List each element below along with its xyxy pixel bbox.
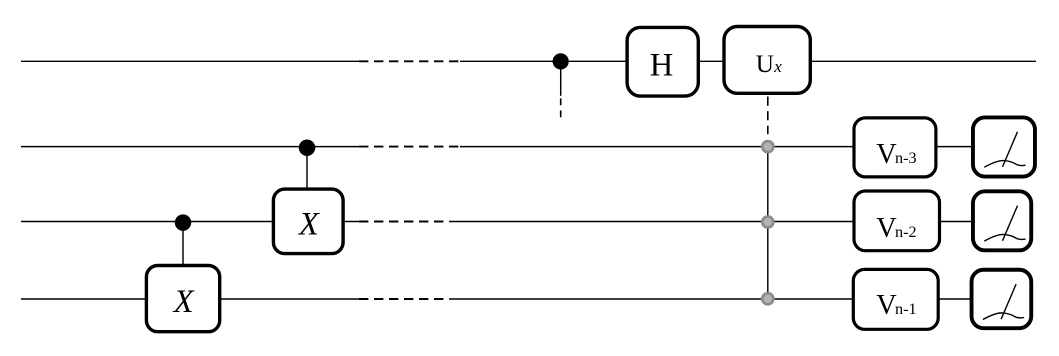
svg-text:X: X — [297, 207, 321, 243]
svg-text:U: U — [756, 51, 774, 78]
svg-text:n-3: n-3 — [895, 149, 917, 167]
svg-text:X: X — [172, 284, 196, 320]
svg-text:n-2: n-2 — [895, 223, 917, 241]
svg-text:n-1: n-1 — [895, 300, 917, 318]
svg-text:H: H — [650, 47, 674, 83]
svg-text:x: x — [773, 57, 782, 76]
